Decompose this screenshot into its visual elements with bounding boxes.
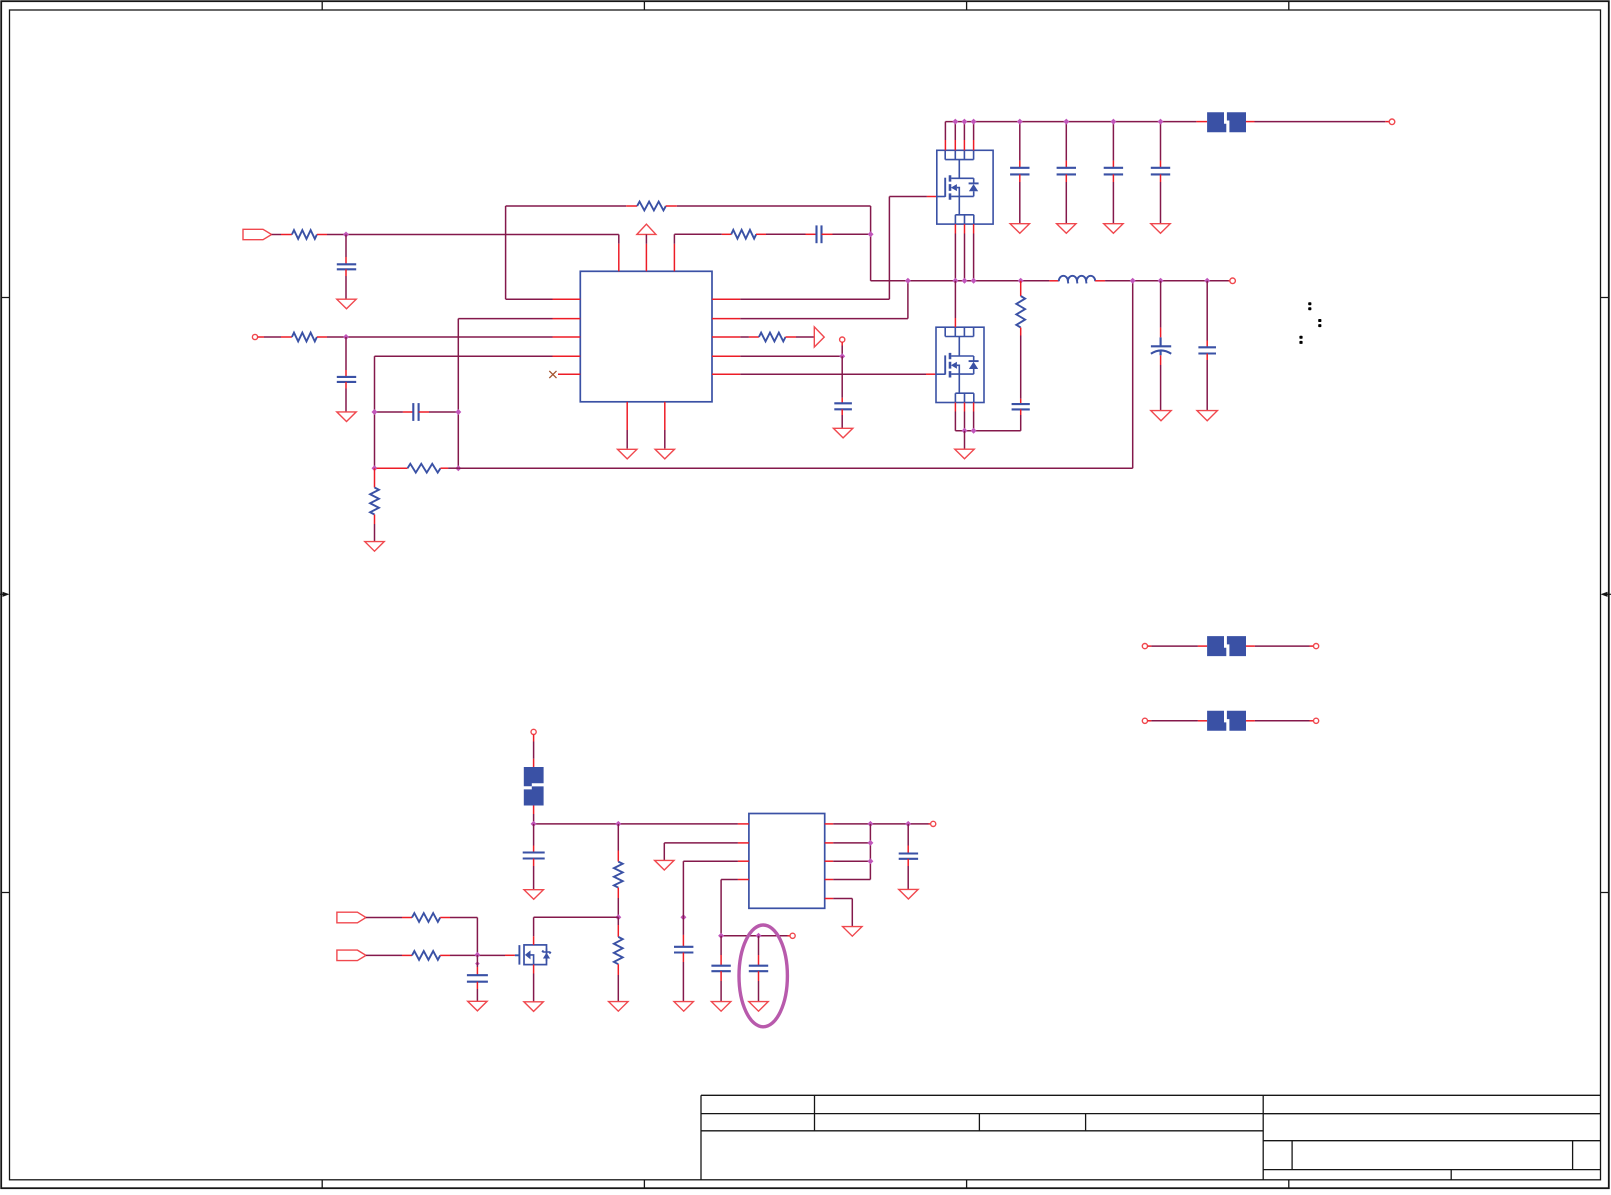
resistor R7 xyxy=(740,333,814,342)
capacitor C14 xyxy=(674,917,693,1001)
centering arrow left xyxy=(0,593,4,595)
U2 right pin stubs xyxy=(825,824,834,899)
power symbol VCC arrow xyxy=(637,224,656,234)
capacitor C12 xyxy=(1198,281,1216,411)
wire long feedback bottom xyxy=(458,281,1132,468)
wire VOUT row xyxy=(1105,280,1228,282)
wire U1 gate drive low xyxy=(740,373,926,375)
resistor R2 xyxy=(281,333,327,342)
capacitor C8 xyxy=(1151,122,1170,224)
U1 top pin stubs xyxy=(619,244,675,271)
wire xyxy=(450,954,505,956)
capacitor C11 (polarized) xyxy=(1151,281,1171,411)
terminal VCC in xyxy=(531,729,536,734)
border zone ticks left xyxy=(1,298,9,893)
offpage arrow xyxy=(814,327,824,347)
node comp junctions xyxy=(372,409,462,471)
wire xyxy=(1255,121,1386,123)
title block xyxy=(701,1095,1601,1180)
inductor L1 xyxy=(1049,276,1105,284)
ground xyxy=(524,1002,543,1012)
capacitor C13 xyxy=(523,824,545,890)
ground xyxy=(609,1002,628,1012)
ground xyxy=(833,428,852,438)
wire xyxy=(272,234,281,236)
highlight ellipse xyxy=(739,925,787,1027)
wire xyxy=(327,336,553,338)
capacitor C10 (snubber) xyxy=(1012,399,1030,431)
ground U1 pad1 xyxy=(618,430,637,459)
U1 right pin stubs xyxy=(712,299,740,374)
wire xyxy=(1148,720,1198,722)
resistor R12 xyxy=(402,951,450,960)
wire Q2 drain pin xyxy=(954,281,956,327)
wire input bus xyxy=(945,121,1196,123)
ground xyxy=(524,890,543,900)
ground xyxy=(1057,224,1076,234)
ground xyxy=(843,927,862,937)
wire compensation left xyxy=(458,319,552,469)
text remnant dots xyxy=(1299,302,1321,344)
node xyxy=(718,933,761,939)
wire SW node xyxy=(871,280,1050,282)
wire xyxy=(645,234,647,243)
node RC junction xyxy=(868,231,874,237)
fuse F3 xyxy=(1198,711,1255,731)
capacitor C4 (series) xyxy=(375,403,459,421)
capacitor C9 xyxy=(834,356,852,428)
fuse F4 xyxy=(524,759,544,814)
wire xyxy=(327,235,619,244)
op IC U1 (buck controller) xyxy=(580,271,712,402)
node xyxy=(1017,119,1023,125)
terminal VOUT xyxy=(1230,278,1236,284)
wire xyxy=(788,935,791,937)
resistor R6 (to ground) xyxy=(370,468,379,541)
wire Q2 source rail xyxy=(955,430,1020,432)
wire VCC rail xyxy=(534,823,738,825)
resistor R11 xyxy=(402,913,450,922)
fuse F2 xyxy=(1198,636,1255,656)
capacitor C17 xyxy=(899,824,918,890)
transistor Q3 (small FET) xyxy=(505,945,551,965)
capacitor C18 xyxy=(467,955,488,1001)
wire U2 pin4 branch xyxy=(721,880,738,936)
transistor Q2 (low-side FET module) xyxy=(936,327,984,402)
capacitor C6 xyxy=(1057,122,1076,224)
ground U1 pad2 xyxy=(655,430,674,459)
wire xyxy=(450,918,477,955)
wire xyxy=(1148,645,1198,647)
wire U2 right bus xyxy=(833,824,870,880)
capacitor C1 xyxy=(337,235,356,300)
wire RC row xyxy=(674,234,870,244)
terminal xyxy=(1142,644,1147,649)
node xyxy=(1063,119,1069,125)
ground xyxy=(655,860,674,870)
U2 left pin stubs xyxy=(738,824,749,880)
node xyxy=(615,914,686,920)
wire U1 gate drive high xyxy=(740,197,937,300)
wire U1 phase sense xyxy=(740,281,908,319)
wire feedback left vertical xyxy=(506,206,553,299)
node xyxy=(1158,119,1164,125)
wire Q2 source pins xyxy=(955,403,973,431)
wire compensation inner xyxy=(375,356,553,468)
terminal xyxy=(1314,718,1319,723)
node xyxy=(839,353,845,359)
ground xyxy=(1151,411,1171,421)
wire Q1 drain pins xyxy=(945,122,973,151)
node xyxy=(474,952,480,966)
resistor R10 xyxy=(614,917,623,1001)
ground xyxy=(1197,411,1217,421)
wire U2 pin gnd xyxy=(833,899,852,927)
ground xyxy=(468,1001,487,1011)
capacitor C16 (highlighted) xyxy=(749,936,768,1002)
wire xyxy=(366,917,402,919)
wire xyxy=(740,342,842,356)
node EN junction xyxy=(343,334,349,340)
ground xyxy=(711,1002,730,1012)
resistor R5 xyxy=(377,464,459,473)
node xyxy=(867,821,911,827)
node xyxy=(531,821,622,827)
wire aux rail xyxy=(721,935,787,937)
terminal xyxy=(840,337,845,342)
wire U2 out row xyxy=(833,823,928,825)
resistor R1 xyxy=(281,230,327,239)
wire Q1 source pins xyxy=(955,224,973,281)
ground xyxy=(337,412,356,422)
wire feedback top row xyxy=(506,205,871,207)
ground xyxy=(1010,224,1029,234)
ground xyxy=(1104,224,1123,234)
wire xyxy=(929,823,931,825)
transistor Q1 (high-side FET module) xyxy=(937,150,993,224)
terminal VIN out xyxy=(1389,119,1395,125)
wire xyxy=(258,336,281,338)
wire xyxy=(533,814,535,824)
wire Q3 drain xyxy=(533,917,535,945)
fuse F1 xyxy=(1196,112,1254,132)
U1 bottom pin stubs xyxy=(627,402,665,430)
port VIN xyxy=(243,229,272,239)
resistor R4 xyxy=(722,230,766,239)
op IC U2 (regulator) xyxy=(749,814,825,909)
ground xyxy=(674,1002,693,1012)
capacitor C3 (series) xyxy=(806,225,833,243)
capacitor C2 xyxy=(337,337,356,412)
node VOUT junctions xyxy=(1130,278,1211,284)
ground xyxy=(899,889,918,899)
ground xyxy=(337,299,356,309)
ground xyxy=(1151,224,1170,234)
border zone ticks top xyxy=(322,1,1289,10)
wire xyxy=(366,954,402,956)
wire xyxy=(1255,720,1314,722)
capacitor C5 xyxy=(1010,122,1029,224)
port CTRL2 xyxy=(337,950,366,961)
terminal xyxy=(1314,644,1319,649)
terminal EN xyxy=(252,334,257,339)
no-connect X on U1 pin xyxy=(549,371,556,378)
resistor R8 (snubber) xyxy=(1016,281,1025,399)
capacitor C15 xyxy=(711,936,730,1002)
node VIN junction xyxy=(343,232,349,238)
centering arrow right xyxy=(1608,593,1611,595)
terminal xyxy=(931,821,936,826)
wire drain rail xyxy=(534,916,619,918)
node xyxy=(962,428,977,434)
port CTRL1 xyxy=(337,912,366,923)
wire xyxy=(1255,645,1314,647)
wire Q3 source xyxy=(533,965,535,1002)
node xyxy=(867,840,873,864)
ground xyxy=(749,1002,768,1012)
wire U2 pin3 xyxy=(683,861,738,917)
wire feedback right vertical xyxy=(870,206,872,281)
resistor R3 xyxy=(626,202,677,211)
resistor R9 xyxy=(614,824,623,917)
node SW junctions xyxy=(905,278,1024,284)
wire xyxy=(1229,280,1230,282)
border zone ticks bottom xyxy=(322,1180,1289,1188)
ground PGND xyxy=(955,431,974,459)
capacitor C7 xyxy=(1104,122,1123,224)
border zone ticks right xyxy=(1601,298,1609,893)
terminal xyxy=(1142,718,1147,723)
wire xyxy=(533,735,535,759)
wire xyxy=(1385,121,1389,123)
node xyxy=(1110,119,1116,125)
U1 left pin stubs xyxy=(553,299,581,374)
node bus junctions xyxy=(952,119,976,125)
terminal xyxy=(790,933,795,938)
ground xyxy=(365,542,384,552)
wire U2 en to gnd xyxy=(664,843,738,861)
